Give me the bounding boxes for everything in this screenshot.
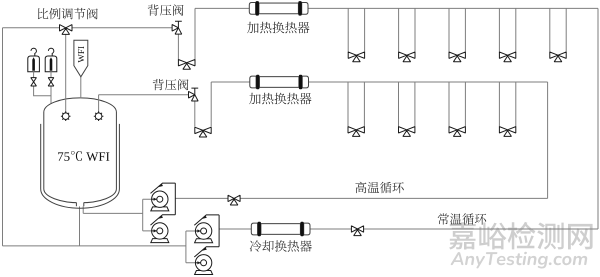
wire row2 loop main (211, 81, 547, 83)
wire row2 feed from tank (99, 94, 189, 96)
proportional control valve 比例调节阀 (60, 25, 73, 35)
wire use-point drop legs row1 #3 (449, 8, 465, 52)
vent filter 2 (48, 48, 53, 56)
heater HX row1 加热换热器 (249, 3, 255, 15)
label 背压阀 row1 (148, 4, 184, 15)
tank vessel 75C WFI (44, 98, 117, 203)
tank bottom nozzle (77, 200, 84, 206)
wire spray feed right (row2 return) (98, 95, 100, 113)
valve on high-temp return (228, 195, 240, 205)
wire use-point drop legs row2 #3 (449, 82, 465, 127)
use point valve row1 #5 (550, 52, 566, 62)
pump 2B (195, 271, 213, 275)
wire normal-temp return line 常温循环 (219, 228, 598, 230)
use point valve row2 #4 (499, 127, 515, 137)
wire use-point drop legs row1 #1 (348, 8, 364, 52)
wire pump group 2 discharge manifold (218, 215, 220, 247)
wire use-point drop legs row1 #4 (499, 8, 515, 52)
wire riser to top loop (194, 8, 196, 59)
wire vent filter drains (34, 86, 51, 105)
wire back pressure valve 2 drop (194, 101, 196, 127)
wire pump group 2 suction manifold (186, 231, 196, 263)
wire use-point drop legs row1 #5 (550, 8, 566, 52)
pump 1A (151, 207, 169, 211)
use point valve row1 #2 (399, 52, 415, 62)
back pressure valve 2 背压阀 (189, 91, 199, 101)
back pressure valve 1 背压阀 (172, 25, 182, 35)
tank label 75C WFI (58, 151, 109, 161)
use point valve row2 #1 (348, 127, 364, 137)
wire top loop main (row 1) (195, 7, 598, 9)
label 高温循环 (355, 182, 403, 194)
use point valve row1 #3 (449, 52, 465, 62)
wire pump group 1 discharge manifold (174, 183, 176, 215)
wire tank bottom drain to header (79, 206, 81, 246)
label 比例调节阀 (38, 8, 98, 20)
use point valve row2 #2 (399, 127, 415, 137)
wire left vertical main (2, 28, 4, 246)
wire riser to row2 loop (210, 82, 212, 127)
watermark AnyTesting.com (451, 252, 587, 269)
use point valve row1 #4 (499, 52, 515, 62)
wire high-temp return line 高温循环 (175, 197, 547, 199)
label 常温循环 (438, 213, 486, 224)
wire pump group 1 suction manifold (143, 199, 153, 231)
wire tank outlet branch (83, 205, 143, 213)
use point valve row2 #3 (449, 127, 465, 137)
WFI feed funnel (74, 40, 88, 77)
watermark 嘉峪检测网 (449, 222, 593, 250)
wire use-point drop legs row1 #2 (399, 8, 415, 52)
wire right edge return (597, 8, 599, 229)
vent filter 1 (31, 48, 36, 56)
spray ball left (61, 111, 71, 121)
wire spray feed left (from control valve) (65, 34, 67, 113)
use point valve row1 #1 (348, 52, 364, 62)
wire back pressure valve 1 drop (177, 34, 179, 60)
WFI funnel text (78, 46, 84, 62)
heater HX row2 加热换热器 (250, 76, 256, 88)
wire top-left horizontal to back pressure valve 1 (3, 27, 173, 29)
label 冷却换热器 (250, 240, 312, 252)
label 加热换热器 row1 (247, 22, 309, 34)
wire spray feed funnel (80, 77, 82, 98)
label 背压阀 row2 (153, 79, 189, 90)
label 加热换热器 row2 (249, 93, 311, 105)
tank jacket (41, 124, 120, 208)
pump 1B (151, 239, 169, 243)
pump 2A (195, 239, 213, 243)
use point valve A (top riser) (178, 60, 195, 70)
wire bottom suction header (3, 245, 186, 247)
cooler HX 冷却换热器 (251, 223, 257, 235)
wire use-point drop legs row2 #1 (348, 82, 364, 127)
wire use-point drop legs row2 #4 (499, 82, 515, 127)
valve on normal-temp return (351, 226, 363, 236)
spray ball right (94, 111, 104, 121)
wire use-point drop legs row2 #2 (399, 82, 415, 127)
use point valve B (row2 riser) (195, 127, 211, 137)
wire row2 return drop (547, 82, 549, 198)
